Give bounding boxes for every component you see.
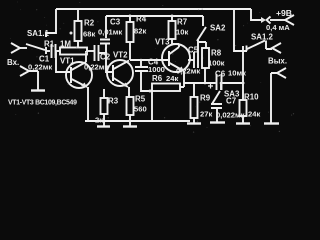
- switch SA1.1 contact: [45, 47, 47, 54]
- transistor VT1 emitter arrow: [81, 83, 87, 88]
- svg-text:R3: R3: [108, 97, 119, 106]
- svg-text:0,022мк: 0,022мк: [216, 111, 245, 120]
- svg-text:R6: R6: [152, 74, 163, 83]
- node SA3 stub: [220, 82, 223, 85]
- svg-text:560: 560: [134, 105, 147, 114]
- svg-text:2к: 2к: [95, 116, 103, 125]
- wire R6 left drop to ground bus: [151, 91, 153, 121]
- transistor VT3 collector: [170, 44, 180, 54]
- svg-text:R9: R9: [200, 94, 211, 103]
- wire to +9V terminal: [270, 19, 285, 21]
- capacitor C3 bottom lead: [105, 44, 107, 53]
- capacitor C2 plates: [95, 45, 99, 61]
- ground bar R10: [236, 122, 250, 124]
- pin arrow +9V male contact: [261, 17, 266, 23]
- resistor R4 top stub: [129, 16, 131, 22]
- svg-text:1000: 1000: [148, 65, 165, 74]
- wire SA1.1 to C1: [46, 50, 50, 52]
- resistor R1 box: [60, 48, 87, 55]
- svg-text:0,01мк: 0,01мк: [98, 28, 122, 37]
- connector X2 output top prong: [272, 43, 281, 53]
- ground bar C7: [210, 121, 225, 123]
- switch SA3 blade: [212, 91, 220, 104]
- resistor R10 bottom lead: [242, 116, 244, 123]
- wire VT2 collector to VT3 base: [130, 59, 169, 61]
- wire C2 to VT2 base: [99, 53, 113, 72]
- transistor VT3 emitter: [170, 63, 185, 83]
- ground bar R5: [123, 125, 137, 127]
- svg-text:10к: 10к: [176, 28, 188, 37]
- transistor VT3 circle: [162, 44, 190, 72]
- transistor VT2 circle: [107, 60, 133, 86]
- svg-text:VT3: VT3: [155, 38, 170, 47]
- node C3 to base junction: [105, 52, 108, 55]
- transistor VT1 circle: [66, 62, 92, 88]
- node dot floating junction above R1: [70, 32, 73, 35]
- transistor VT1 collector: [72, 51, 87, 70]
- transistor VT3 emitter arrow: [178, 67, 184, 72]
- ground bar input: [31, 89, 45, 91]
- resistor R3 box: [101, 98, 108, 114]
- svg-text:0,4 мА: 0,4 мА: [266, 23, 290, 32]
- capacitor C7 bottom lead: [216, 108, 218, 122]
- wire C6 to R10 riser: [223, 82, 244, 84]
- svg-text:27к: 27к: [200, 110, 212, 119]
- wire C5 to VT3 collector side: [188, 59, 194, 61]
- wire input to SA1.1: [20, 47, 27, 49]
- svg-text:SA1.1: SA1.1: [27, 29, 50, 38]
- connector X2 output bottom prong: [277, 68, 286, 78]
- resistor R6 box: [152, 84, 180, 92]
- wire second line (feedback rail): [106, 15, 203, 17]
- resistor R3 top stub: [103, 89, 105, 98]
- svg-text:R4: R4: [136, 15, 147, 24]
- switch SA1.2 blade: [247, 41, 265, 50]
- svg-text:Вых.: Вых.: [268, 57, 287, 66]
- ground bar R3: [97, 125, 110, 127]
- svg-text:1М: 1М: [60, 40, 71, 49]
- svg-text:R10: R10: [244, 93, 259, 102]
- node R3 bus: [103, 120, 106, 123]
- resistor R7 box: [169, 21, 176, 39]
- svg-text:R1: R1: [44, 40, 55, 49]
- svg-text:SA2: SA2: [210, 24, 226, 33]
- wire C1 to R1: [56, 50, 60, 52]
- node R7 on second line: [171, 15, 174, 18]
- wire R6 right lead to VT3 emitter: [180, 83, 184, 87]
- resistor R2 box: [75, 21, 82, 41]
- svg-text:C3: C3: [110, 18, 121, 27]
- svg-text:VT1: VT1: [60, 57, 75, 66]
- svg-text:68к: 68к: [83, 30, 95, 39]
- capacitor C5 plates: [194, 52, 198, 68]
- resistor R8 box: [202, 48, 209, 68]
- transistor VT2 emitter: [114, 78, 130, 97]
- resistor R9 top stub: [193, 83, 195, 97]
- resistor R4 bottom lead to VT2 collector: [129, 42, 131, 60]
- svg-text:C6: C6: [215, 70, 226, 79]
- transistor VT2 base bar: [112, 65, 114, 81]
- node C4 tap: [140, 59, 143, 62]
- transistor VT2 emitter arrow: [122, 83, 128, 88]
- svg-text:24к: 24к: [248, 110, 260, 119]
- pin fork +9V female contact: [267, 17, 271, 24]
- transistor VT3 base bar: [168, 51, 170, 66]
- resistor R4 box: [127, 22, 134, 42]
- resistor R2 top stub: [77, 9, 79, 21]
- capacitor C7 plates: [211, 104, 222, 108]
- capacitor C1 plates: [52, 44, 56, 58]
- node R4 on second line: [129, 15, 132, 18]
- svg-text:R2: R2: [84, 19, 95, 28]
- capacitor C4 bottom lead: [141, 71, 152, 91]
- wire R1 to C2 node: [87, 50, 94, 52]
- capacitor C3 top lead: [105, 16, 107, 38]
- svg-text:+9В: +9В: [276, 8, 292, 18]
- switch SA3 contact stub: [220, 83, 222, 90]
- switch SA2 contact drop: [202, 16, 204, 26]
- resistor R7 bottom lead: [172, 39, 179, 44]
- wire R8 top tee: [199, 42, 206, 48]
- svg-text:82к: 82к: [134, 27, 146, 36]
- label C6 plus sign: [208, 84, 213, 89]
- capacitor C4 top lead: [140, 60, 142, 67]
- svg-text:0,22мк: 0,22мк: [176, 67, 200, 76]
- wire top supply bus: [56, 8, 251, 10]
- wire bottom common bus: [85, 120, 190, 122]
- wire R10 riser to SA1.2: [242, 46, 244, 100]
- svg-text:R8: R8: [211, 49, 222, 58]
- transistor VT1 emitter: [72, 79, 89, 121]
- svg-text:C7: C7: [226, 97, 237, 106]
- resistor R3 bottom lead: [103, 114, 105, 126]
- node R10 output wire: [242, 82, 245, 85]
- wire bus branch to SA1.2: [234, 9, 247, 51]
- capacitor C5 riser from SA2: [197, 40, 199, 52]
- resistor R9 box: [191, 97, 198, 118]
- resistor R2 bottom lead: [77, 41, 79, 47]
- node C4-R6 junction: [149, 90, 152, 93]
- resistor R5 box: [127, 97, 134, 115]
- wire input sleeve to ground: [29, 71, 38, 90]
- transistor VT2 collector: [114, 61, 130, 70]
- resistor R9 bottom lead: [193, 118, 195, 123]
- svg-text:R7: R7: [177, 18, 188, 27]
- svg-text:VT1-VT3 BC109,BC549: VT1-VT3 BC109,BC549: [8, 100, 77, 107]
- resistor R8 bottom lead: [204, 68, 206, 83]
- capacitor C6 plates: [217, 74, 222, 90]
- wire left bus corner to SA1.1 upper contact: [46, 9, 56, 37]
- svg-text:100к: 100к: [208, 59, 225, 68]
- resistor R10 box: [240, 100, 247, 116]
- svg-text:SA1.2: SA1.2: [251, 33, 274, 42]
- switch SA2 blade: [197, 27, 206, 41]
- ground bar output: [264, 122, 279, 124]
- resistor R5 bottom lead: [129, 115, 131, 126]
- node R5 bus: [129, 120, 132, 123]
- connector X1 input bottom prong: [20, 66, 29, 76]
- wire VT1 base L: [56, 52, 71, 72]
- switch SA1.1 blade: [26, 44, 45, 50]
- transistor VT1 base bar: [70, 67, 72, 83]
- svg-text:0,22мк: 0,22мк: [84, 63, 108, 72]
- svg-text:10мк: 10мк: [228, 69, 246, 78]
- resistor R7 top stub: [171, 16, 173, 21]
- wire emitter output line: [184, 82, 216, 84]
- svg-text:C5: C5: [188, 46, 199, 55]
- wire output sleeve to ground: [271, 73, 277, 123]
- svg-text:C2: C2: [100, 53, 111, 62]
- svg-text:0,22мк: 0,22мк: [28, 63, 52, 72]
- wire SA1.2 to output fork: [266, 41, 272, 50]
- svg-text:R5: R5: [135, 95, 146, 104]
- ground bar R9: [187, 122, 201, 124]
- node R8 emitter wire: [204, 82, 207, 85]
- svg-text:VT2: VT2: [113, 51, 128, 60]
- capacitor C4 plates: [135, 67, 148, 71]
- wire bus right corner to +9V connector: [251, 9, 261, 20]
- capacitor C3 plates: [100, 40, 110, 44]
- connector X1 input top prong: [11, 43, 20, 53]
- terminal fork +9V: [285, 15, 294, 25]
